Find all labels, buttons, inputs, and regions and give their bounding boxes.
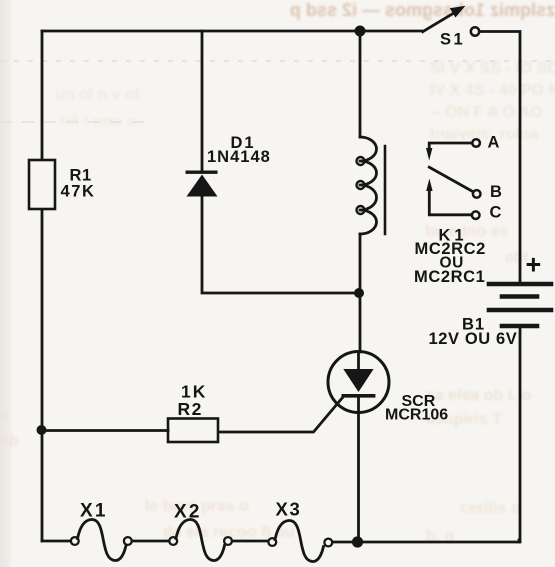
svg-text:SI V X SS - IO SOO: SI V X SS - IO SOO xyxy=(430,60,555,77)
svg-text:cerilis o: cerilis o xyxy=(460,500,521,517)
svg-text:R2: R2 xyxy=(178,399,203,419)
svg-text:o: o xyxy=(0,407,10,424)
svg-text:IV X 4S - 40 PO M: IV X 4S - 40 PO M xyxy=(430,82,555,99)
svg-text:zslqmiz 1obssgmos — i2 ssd p: zslqmiz 1obssgmos — i2 ssd p xyxy=(290,0,555,20)
svg-text:C: C xyxy=(490,204,503,222)
svg-text:X1: X1 xyxy=(80,501,108,522)
svg-text:1N4148: 1N4148 xyxy=(207,148,271,166)
svg-text:47K: 47K xyxy=(61,183,96,201)
svg-text:+: + xyxy=(526,250,542,280)
svg-text:B: B xyxy=(490,183,503,201)
svg-text:X3: X3 xyxy=(276,499,302,520)
svg-text:S1: S1 xyxy=(440,31,465,49)
svg-text:un ol n v ol: un ol n v ol xyxy=(55,86,139,103)
svg-text:tnaiveis; roloa: tnaiveis; roloa xyxy=(430,126,539,143)
svg-text:A: A xyxy=(488,134,501,152)
svg-text:12V OU 6V: 12V OU 6V xyxy=(429,330,518,348)
svg-text:X2: X2 xyxy=(174,502,202,523)
svg-text:sb: sb xyxy=(0,433,19,450)
svg-text:MCR106: MCR106 xyxy=(385,407,448,424)
svg-text:-- ON F A O AO: -- ON F A O AO xyxy=(430,104,543,121)
svg-text:sa elea ob l. o: sa elea ob l. o xyxy=(426,387,531,404)
svg-text:MC2RC1: MC2RC1 xyxy=(414,268,485,286)
